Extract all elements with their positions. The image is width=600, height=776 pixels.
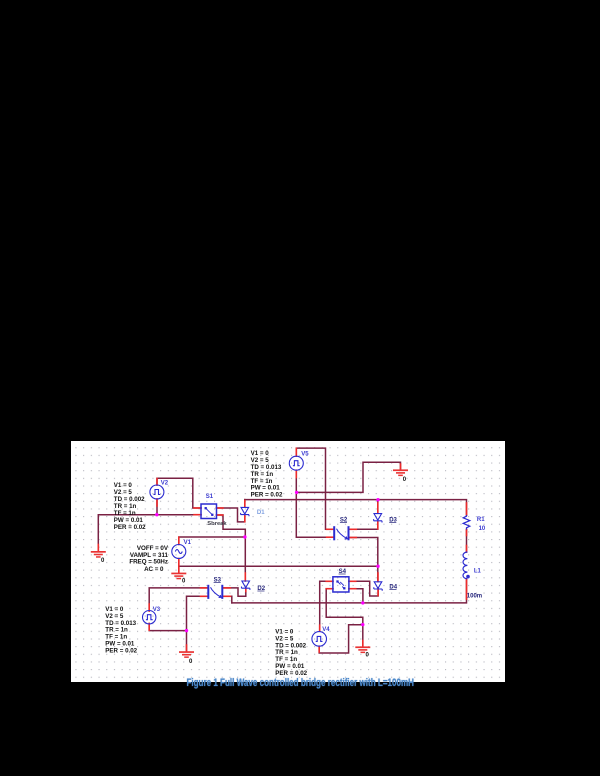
svg-text:TD = 0.002: TD = 0.002 xyxy=(114,496,145,503)
svg-text:VOFF = 0V: VOFF = 0V xyxy=(137,545,169,552)
svg-text:PER = 0.02: PER = 0.02 xyxy=(114,524,146,531)
svg-text:PER = 0.02: PER = 0.02 xyxy=(105,647,137,654)
svg-text:V3: V3 xyxy=(153,607,161,613)
svg-text:V1 = 0: V1 = 0 xyxy=(114,482,133,489)
svg-text:PER = 0.02: PER = 0.02 xyxy=(251,492,283,499)
svg-text:V4: V4 xyxy=(322,627,330,633)
svg-text:D1: D1 xyxy=(257,510,265,516)
svg-text:S1: S1 xyxy=(206,494,214,500)
svg-text:AC = 0: AC = 0 xyxy=(144,566,164,573)
svg-text:V5: V5 xyxy=(301,451,309,457)
svg-text:FREQ = 50Hz: FREQ = 50Hz xyxy=(129,559,168,566)
svg-text:L1: L1 xyxy=(474,568,482,574)
svg-text:V1: V1 xyxy=(184,540,192,546)
svg-text:10: 10 xyxy=(479,526,486,532)
svg-text:100m: 100m xyxy=(467,593,482,599)
svg-text:R1: R1 xyxy=(477,517,485,523)
svg-text:PER = 0.02: PER = 0.02 xyxy=(275,670,307,677)
svg-text:V2 = 5: V2 = 5 xyxy=(114,489,133,496)
svg-text:TF = 1n: TF = 1n xyxy=(114,510,136,517)
svg-text:TR = 1n: TR = 1n xyxy=(114,503,137,510)
svg-text:Sbreak: Sbreak xyxy=(207,521,227,527)
svg-text:V2: V2 xyxy=(161,481,169,487)
svg-text:PW = 0.01: PW = 0.01 xyxy=(114,517,144,524)
